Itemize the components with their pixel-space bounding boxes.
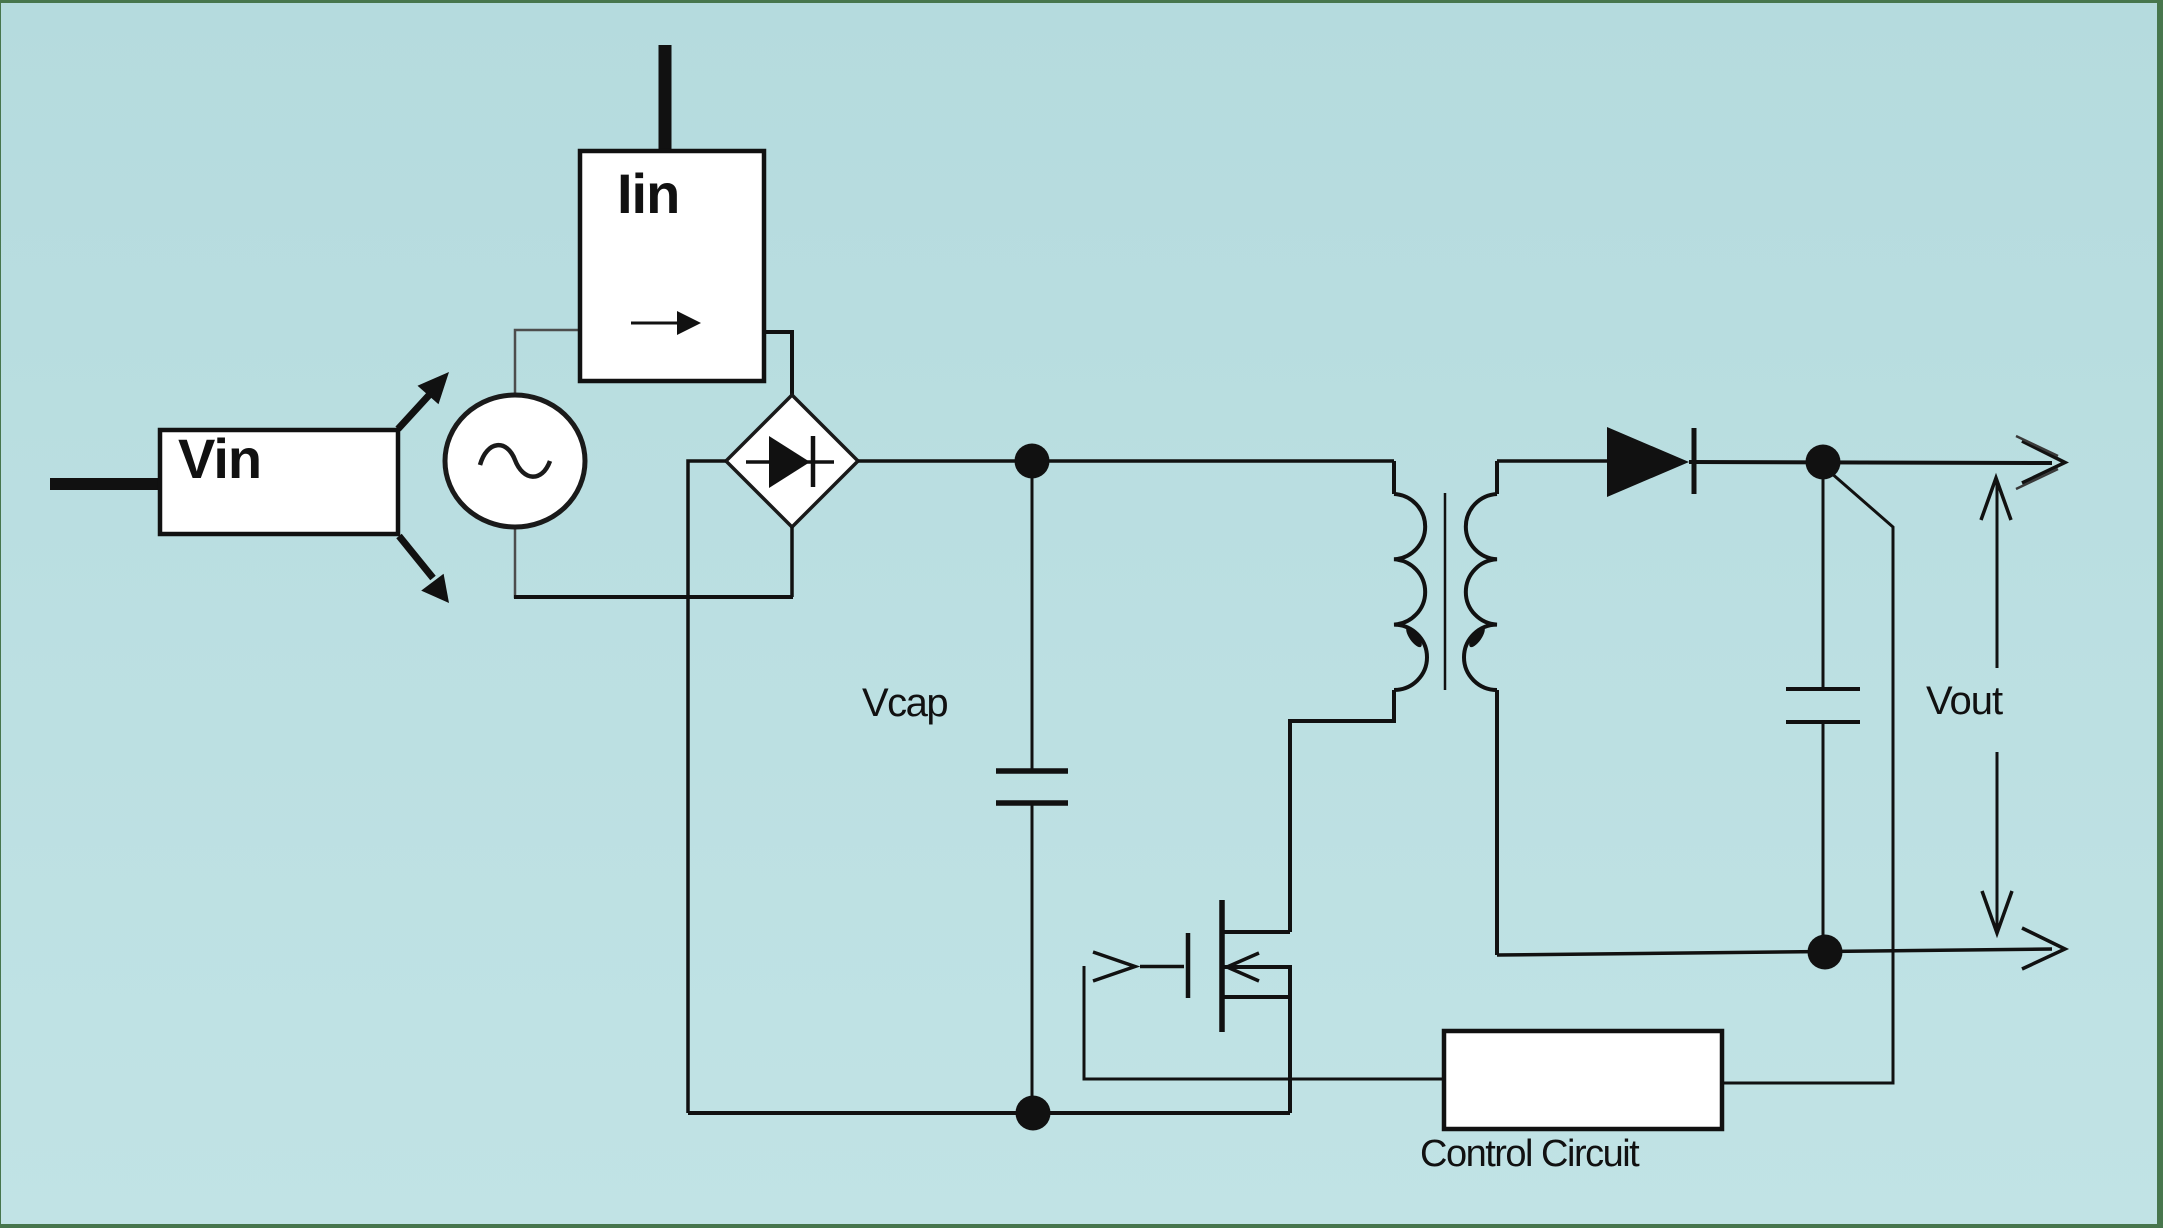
channel bar [1219,900,1225,1032]
transistor Q1 MOSFET [1093,900,1290,1113]
wire Vin input stub [50,478,161,490]
wire AC source top to Iin [515,330,580,397]
wire secondary top to diode [1497,459,1607,463]
wire feedback diagonal from node N3 [1722,472,1893,1083]
capacitor C1 Vcap [996,461,1068,1113]
transformer winding ink blobs [1403,625,1424,650]
transformer core [1444,493,1447,690]
Vin box [160,430,398,534]
wire bottom rail left [688,1111,1290,1115]
bridge diode [746,436,834,488]
arrow up-right from Vin box [398,372,449,429]
diode D1 [1607,427,1694,497]
svg-text:Vcap: Vcap [862,681,947,725]
Iin current direction arrow [631,311,701,335]
wire AC source bottom [515,525,793,597]
bridge rectifier diamond [726,395,858,527]
wire bridge left vertex [688,461,726,1113]
AC source V1 [445,395,585,527]
gate bar [1186,933,1191,998]
gate lead [1140,965,1184,969]
svg-text:Iin: Iin [617,162,679,225]
wire top rail bridge to transformer [858,459,1394,463]
Iin top stub [659,45,672,153]
drain lead [1224,930,1290,934]
wire gate drive loop [1084,966,1444,1079]
node N1 dot [1015,444,1050,479]
wire bridge bottom vertex down [790,527,794,597]
transformer T1 secondary [1464,461,1497,955]
wire Iin right to bridge top [764,332,792,397]
Iin box [580,151,764,381]
body lead [1224,995,1290,999]
transformer T1 primary [1290,461,1427,932]
wire diode to node N3 [1689,462,2052,463]
control circuit box [1444,1031,1722,1129]
source lead with arrow [1224,965,1290,969]
arrow output plus [2022,441,2065,483]
svg-text:Control Circuit: Control Circuit [1420,1133,1640,1175]
arrow output minus [2022,928,2065,969]
gate drive arrowhead [1093,952,1135,981]
svg-text:Vout: Vout [1926,679,2003,723]
arrow down-right from Vin box [399,536,449,603]
wire AC bottom to bridge (black part) [514,595,793,599]
capacitor C2 output [1786,462,1860,952]
right bar [1288,965,1292,1113]
node N4 dot [1808,935,1843,970]
Vout measurement arrow [1981,478,2012,933]
node N2 dot [1016,1096,1051,1131]
svg-text:Vin: Vin [178,427,261,490]
node N3 dot [1806,445,1841,480]
wire bottom output rail [1497,949,2052,955]
